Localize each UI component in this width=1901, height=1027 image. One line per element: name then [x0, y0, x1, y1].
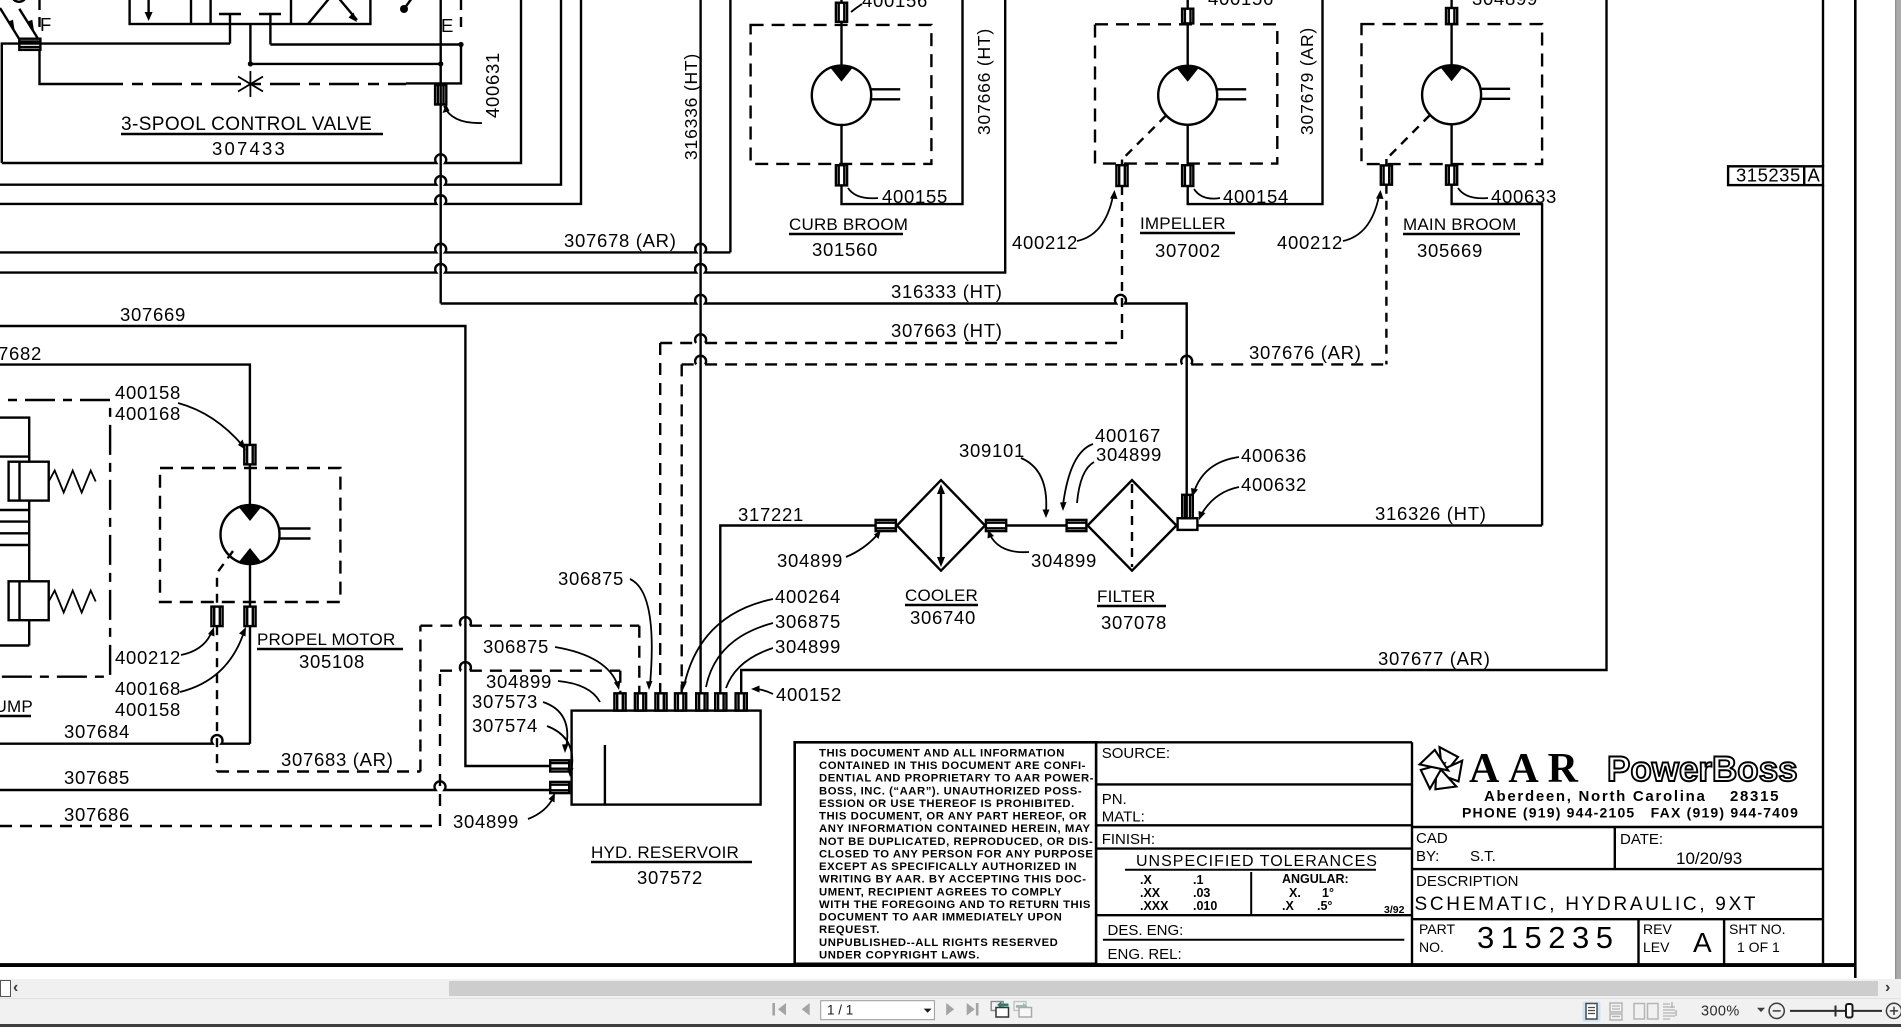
wire main broom case drain down (307676): [1385, 185, 1387, 365]
main broom dashed enclosure: [1362, 24, 1543, 164]
svg-text:DENTIAL AND PROPRIETARY TO AAR: DENTIAL AND PROPRIETARY TO AAR POWER-: [819, 773, 1094, 785]
svg-text:400212: 400212: [1012, 232, 1078, 253]
svg-text:307433: 307433: [212, 138, 287, 159]
next page button: [946, 1003, 954, 1016]
fitting cooler outlet: [986, 520, 1006, 531]
leader 400632: [1201, 487, 1239, 515]
wire 307685: [0, 781, 550, 790]
svg-text:FILTER: FILTER: [1097, 587, 1156, 606]
svg-text:307666 (HT): 307666 (HT): [974, 28, 994, 135]
svg-text:309101: 309101: [959, 440, 1025, 461]
valve T port 2: [259, 13, 281, 15]
pump ports ladder: [28, 457, 30, 462]
fitting tank F7: [736, 693, 747, 710]
zoom in: [1886, 1003, 1901, 1018]
fitting tank left 2: [550, 782, 569, 793]
svg-text:WRITING BY AAR. BY ACCEPTING T: WRITING BY AAR. BY ACCEPTING THIS DOC-: [819, 874, 1087, 886]
curb broom dashed enclosure: [751, 25, 932, 164]
svg-text:307573: 307573: [472, 691, 538, 712]
svg-text:DES. ENG:: DES. ENG:: [1108, 922, 1184, 939]
viewer toolbar: [0, 998, 1901, 1025]
wire propel feed: [249, 464, 251, 505]
svg-text:1 OF 1: 1 OF 1: [1737, 939, 1780, 955]
svg-text:3/92: 3/92: [1384, 904, 1405, 916]
svg-text:307572: 307572: [637, 867, 703, 888]
fitting 400155: [836, 165, 847, 185]
svg-text:400156: 400156: [1208, 0, 1274, 9]
svg-text:MAIN BROOM: MAIN BROOM: [1403, 215, 1516, 234]
svg-text:F: F: [40, 14, 52, 35]
leader 400212 main broom: [1343, 196, 1379, 241]
svg-text:317221: 317221: [738, 504, 804, 525]
svg-text:PN.: PN.: [1102, 791, 1127, 808]
wire 317221: [720, 526, 875, 694]
hydraulic reservoir 307572: [572, 711, 761, 805]
wire cooler to filter: [1006, 524, 1066, 526]
svg-text:.XXX: .XXX: [1140, 899, 1169, 913]
layout: continuous: [1610, 1003, 1622, 1020]
viewer horizontal scrollbar: [0, 979, 1901, 998]
leaders 400167/304899: [1063, 444, 1093, 505]
svg-text:400632: 400632: [1241, 474, 1307, 495]
wire: center port down and right to trunk: [250, 24, 440, 64]
fitting main broom top: [1446, 8, 1457, 24]
layout: single page (active): [1583, 1002, 1601, 1022]
motor main broom: [1422, 65, 1510, 124]
right margin wire: [1822, 0, 1824, 963]
motor curb broom: [812, 66, 900, 125]
svg-text:ENG. REL:: ENG. REL:: [1108, 946, 1182, 963]
svg-text:315235: 315235: [1736, 165, 1801, 186]
svg-text:400152: 400152: [776, 684, 842, 705]
svg-text:304899: 304899: [777, 550, 843, 571]
svg-text:DOCUMENT TO AAR IMMEDIATELY UP: DOCUMENT TO AAR IMMEDIATELY UPON: [819, 912, 1062, 924]
svg-text:DATE:: DATE:: [1620, 831, 1663, 848]
svg-text:PROPEL MOTOR: PROPEL MOTOR: [257, 630, 395, 649]
svg-text:X.: X.: [1289, 886, 1301, 900]
wire 307686 dashed: [0, 671, 620, 826]
dashed stub above F: [38, 0, 40, 34]
svg-text:.03: .03: [1193, 886, 1210, 900]
svg-text:UNDER COPYRIGHT LAWS.: UNDER COPYRIGHT LAWS.: [819, 949, 980, 961]
impeller case drain (dashed diagonal): [1122, 116, 1166, 160]
spring 2: [49, 591, 96, 613]
svg-text:THIS DOCUMENT AND ALL INFORMAT: THIS DOCUMENT AND ALL INFORMATION: [819, 748, 1065, 760]
svg-text:ANGULAR:: ANGULAR:: [1282, 872, 1349, 886]
svg-text:CLOSED TO ANY PERSON FOR ANY P: CLOSED TO ANY PERSON FOR ANY PURPOSE: [819, 849, 1093, 861]
svg-text:.X: .X: [1140, 873, 1152, 887]
pump dash-dot enclosure: [0, 400, 110, 677]
svg-text:E: E: [441, 15, 454, 36]
svg-text:400212: 400212: [115, 647, 181, 668]
svg-text:307676 (AR): 307676 (AR): [1249, 342, 1362, 363]
last page button: [967, 1003, 979, 1016]
leader 400212 propel: [181, 631, 212, 655]
svg-text:PHONE (919) 944-2105 FAX (91: PHONE (919) 944-2105 FAX (919) 944-7409: [1462, 805, 1799, 821]
svg-text:306875: 306875: [483, 636, 549, 657]
wire 307678 (AR): [729, 0, 731, 252]
layout: two pages: [1634, 1004, 1658, 1020]
svg-text:305108: 305108: [299, 651, 365, 672]
svg-text:315235: 315235: [1477, 920, 1619, 955]
svg-text:.X: .X: [1282, 899, 1294, 913]
propel case drain dashed: [217, 551, 233, 607]
fitting 400212 (main broom): [1381, 165, 1392, 184]
svg-text:.5°: .5°: [1317, 899, 1332, 913]
svg-text:400633: 400633: [1491, 186, 1557, 207]
svg-text:UNPUBLISHED--ALL RIGHTS RESERV: UNPUBLISHED--ALL RIGHTS RESERVED: [819, 937, 1058, 949]
X symbol: [238, 71, 263, 97]
svg-text:A: A: [1808, 165, 1821, 186]
svg-text:316336 (HT): 316336 (HT): [681, 53, 701, 160]
title block: middle column grid: [1096, 742, 1412, 915]
svg-text:400155: 400155: [882, 186, 948, 207]
wire main broom return to 316326: [1452, 185, 1543, 526]
bottom dark strip: [0, 1024, 1901, 1027]
svg-text:400168: 400168: [115, 678, 181, 699]
svg-text:307574: 307574: [472, 715, 538, 736]
zoom out: [1769, 1003, 1784, 1018]
main broom case drain diagonal: [1386, 115, 1430, 159]
wire propel bottom to 307684: [249, 626, 251, 744]
svg-text:S.T.: S.T.: [1470, 848, 1496, 865]
leader 400168/400158 bottom: [180, 632, 244, 692]
svg-text:316333 (HT): 316333 (HT): [891, 281, 1003, 302]
svg-text:304899: 304899: [1031, 550, 1097, 571]
svg-text:307682: 307682: [0, 343, 42, 364]
motor propel (bidirectional): [221, 505, 311, 564]
pump block (cut): [0, 418, 29, 457]
svg-text:307684: 307684: [64, 721, 130, 742]
svg-text:MATL:: MATL:: [1102, 809, 1145, 826]
dashed stub below E: [460, 0, 462, 33]
valve relief triangle (right cell): [308, 0, 332, 24]
wire 307663 (HT) dashed: [660, 343, 1122, 693]
svg-text:400167: 400167: [1095, 425, 1161, 446]
svg-text:304899: 304899: [1472, 0, 1538, 9]
prev page button: [802, 1003, 810, 1016]
propel motor dashed enclosure: [160, 468, 340, 602]
svg-text:.XX: .XX: [1140, 886, 1161, 900]
leader 400154: [1194, 189, 1220, 199]
wire impeller bottom: [1186, 125, 1188, 165]
wire E-line to impeller drain riser: [0, 0, 1005, 273]
wire impeller case drain down (307663): [1121, 186, 1123, 343]
svg-text:304899: 304899: [1096, 444, 1162, 465]
svg-text:307669: 307669: [120, 304, 186, 325]
wire main broom bottom: [1450, 124, 1452, 165]
svg-text:NOT BE DUPLICATED, REPRODUCED,: NOT BE DUPLICATED, REPRODUCED, OR DIS-: [819, 836, 1093, 848]
leader 400636: [1194, 457, 1239, 492]
svg-text:AAR: AAR: [1469, 746, 1587, 792]
svg-text:WITH THE FOREGOING AND TO RETU: WITH THE FOREGOING AND TO RETURN THIS: [819, 899, 1091, 911]
fitting 400631: [435, 85, 446, 105]
wire 307677 (AR): [741, 0, 1606, 693]
svg-text:316326 (HT): 316326 (HT): [1375, 503, 1487, 524]
svg-text:304899: 304899: [486, 671, 552, 692]
fitting tank left 1: [550, 760, 569, 771]
fitting F port: [19, 39, 40, 50]
3-spool control valve body (cut at top): [130, 0, 371, 24]
svg-text:307078: 307078: [1101, 612, 1167, 633]
svg-text:NO.: NO.: [1419, 939, 1444, 955]
relief valve 2: [9, 581, 49, 620]
motor impeller: [1158, 66, 1246, 125]
wire 307684: [0, 735, 250, 744]
wire 307683 (AR) dashed: [217, 626, 639, 772]
page number box: [821, 1001, 935, 1020]
impeller dashed enclosure: [1095, 24, 1277, 163]
zoom slider: [1790, 1010, 1882, 1012]
fitting 400633: [1446, 165, 1457, 184]
dash-dot centre line with X: [40, 50, 94, 84]
wire curb broom feed: [840, 0, 842, 3]
filter: [1088, 480, 1177, 571]
wire 307669 box: [0, 326, 550, 766]
part number box 315235 A: [1728, 166, 1823, 185]
svg-text:300%: 300%: [1701, 1004, 1740, 1020]
wire: T2 to step corner: [270, 45, 461, 84]
lever handle (top-left, cut off): [12, 0, 27, 2]
svg-text:REQUEST.: REQUEST.: [819, 924, 880, 936]
svg-text:400636: 400636: [1241, 445, 1307, 466]
svg-text:400156: 400156: [862, 0, 928, 11]
wire 316333 (HT): [441, 295, 1187, 518]
svg-text:307685: 307685: [64, 767, 130, 788]
filter outlet tee fitting: [1178, 495, 1198, 530]
wire impeller return 307679: [1188, 0, 1323, 204]
wire 307682 to propel motor: [0, 365, 250, 445]
drawing bottom border: [0, 963, 1857, 967]
svg-text:BY:: BY:: [1416, 848, 1439, 865]
leader 400212 impeller: [1077, 196, 1113, 241]
lever ball (top middle): [400, 5, 408, 13]
svg-text:FINISH:: FINISH:: [1102, 831, 1155, 848]
svg-text:10/20/93: 10/20/93: [1676, 849, 1742, 868]
fitting tank F2: [635, 693, 646, 710]
fitting 400168/400158 bottom: [244, 607, 255, 627]
fitting tank F1: [614, 693, 625, 710]
svg-text:PART: PART: [1419, 921, 1455, 937]
fitting 400212 (impeller): [1116, 165, 1127, 186]
fitting curb broom top: [836, 3, 847, 22]
wire 307676 (AR) dashed: [682, 364, 1387, 693]
next view button (disabled): [1014, 1002, 1032, 1018]
svg-text:307678 (AR): 307678 (AR): [564, 230, 677, 251]
wires wrapping right of valve (A,B,C): [2, 0, 521, 163]
wire curb broom bottom: [840, 125, 842, 165]
svg-text:CURB BROOM: CURB BROOM: [789, 215, 908, 234]
svg-text:400158: 400158: [115, 382, 181, 403]
wire main broom feed: [1450, 0, 1452, 8]
previous view button: [991, 1001, 1008, 1017]
AAR PowerBoss logo pinwheel: [1420, 747, 1463, 789]
svg-text:301560: 301560: [812, 239, 878, 260]
leader 304899 cooler inlet: [846, 534, 878, 557]
first page button: [772, 1003, 786, 1016]
fitting tank F6: [715, 693, 726, 710]
fitting 400158/400168 top: [244, 445, 255, 465]
svg-text:SCHEMATIC, HYDRAULIC, 9XT: SCHEMATIC, HYDRAULIC, 9XT: [1415, 894, 1759, 915]
wire 316326 (HT): [1197, 524, 1542, 526]
svg-text:UNSPECIFIED TOLERANCES: UNSPECIFIED TOLERANCES: [1136, 853, 1378, 870]
leader 400155: [848, 188, 878, 198]
svg-text:305669: 305669: [1417, 240, 1483, 261]
svg-text:400212: 400212: [1277, 232, 1343, 253]
svg-text:ANY INFORMATION CONTAINED HERE: ANY INFORMATION CONTAINED HEREIN, MAY: [819, 823, 1091, 835]
trunk wire from valve (jumps 5 lines, corner right = 316333): [440, 0, 442, 304]
svg-text:400168: 400168: [115, 403, 181, 424]
svg-text:CONTAINED IN THIS DOCUMENT ARE: CONTAINED IN THIS DOCUMENT ARE CONFI-: [819, 760, 1086, 772]
svg-text:CAD: CAD: [1416, 830, 1448, 847]
relief valve 1: [9, 462, 49, 501]
svg-text:306875: 306875: [775, 611, 841, 632]
svg-text:306740: 306740: [910, 607, 976, 628]
viewer vertical scrollbar strip: [1895, 0, 1901, 979]
wire propel case drain down: [216, 626, 218, 771]
svg-text:307663 (HT): 307663 (HT): [891, 320, 1003, 341]
svg-text:307002: 307002: [1155, 240, 1221, 261]
svg-text:ESSION OR USE THEREOF IS PROHI: ESSION OR USE THEREOF IS PROHIBITED.: [819, 798, 1075, 810]
svg-text:HYD. RESERVOIR: HYD. RESERVOIR: [591, 843, 739, 862]
drawing right border: [1854, 0, 1857, 978]
wire impeller feed: [1186, 0, 1188, 9]
fitting impeller top: [1182, 9, 1193, 24]
leader 304899 cooler outlet: [990, 535, 1029, 552]
fitting tank F5: [696, 693, 707, 710]
svg-text:.010: .010: [1193, 899, 1217, 913]
svg-text:SHT NO.: SHT NO.: [1729, 921, 1786, 937]
wire curb broom return 307666: [842, 0, 963, 204]
svg-text:1 / 1: 1 / 1: [827, 1003, 853, 1018]
cooler: [897, 480, 985, 571]
svg-text:304899: 304899: [775, 636, 841, 657]
svg-text:1°: 1°: [1322, 886, 1334, 900]
title block: legal notice box: [795, 742, 1096, 964]
fitting filter inlet: [1067, 520, 1087, 531]
svg-text:PowerBoss: PowerBoss: [1607, 750, 1798, 789]
spring 1: [49, 471, 96, 493]
fitting 400212 (propel): [211, 607, 222, 627]
svg-text:UMENT, RECIPIENT AGREES TO COM: UMENT, RECIPIENT AGREES TO COMPLY: [819, 886, 1062, 898]
fitting tank F4: [675, 693, 686, 710]
svg-text:307683 (AR): 307683 (AR): [281, 749, 394, 770]
valve T port 1: [219, 13, 241, 15]
svg-text:A: A: [1693, 927, 1712, 958]
leader 309101: [1021, 458, 1046, 512]
wire: valve outer box top edge (left): [2, 44, 230, 163]
pump lower port: [28, 620, 30, 645]
svg-text:400154: 400154: [1223, 186, 1289, 207]
wire propel bottom: [249, 564, 251, 607]
leader 400631: [444, 106, 482, 123]
title block: right column grid: [1412, 827, 1823, 919]
leader 400158/400168 top: [178, 403, 243, 446]
svg-text:307686: 307686: [64, 804, 130, 825]
svg-text:307679 (AR): 307679 (AR): [1297, 27, 1317, 135]
svg-text:IMPELLER: IMPELLER: [1140, 214, 1226, 233]
fitting 400154: [1182, 165, 1193, 186]
svg-text:BOSS, INC. (“AAR”). UNAUTHORI: BOSS, INC. (“AAR”). UNAUTHORIZED POSS-: [819, 785, 1082, 797]
svg-text:400158: 400158: [115, 699, 181, 720]
svg-text:DESCRIPTION: DESCRIPTION: [1416, 873, 1519, 890]
svg-text:LEV: LEV: [1643, 939, 1670, 955]
svg-text:306875: 306875: [558, 568, 624, 589]
svg-text:THIS DOCUMENT, OR ANY PART HER: THIS DOCUMENT, OR ANY PART HEREOF, OR: [819, 811, 1087, 823]
svg-text:PUMP: PUMP: [0, 697, 33, 716]
leader 400633: [1458, 188, 1488, 198]
fitting tank F3: [655, 693, 666, 710]
trunk wire 316336 down to reservoir: [699, 0, 701, 693]
svg-text:3-SPOOL CONTROL VALVE: 3-SPOOL CONTROL VALVE: [121, 114, 372, 135]
svg-text:COOLER: COOLER: [905, 586, 978, 605]
svg-text:REV: REV: [1643, 921, 1672, 937]
svg-text:Aberdeen, North Carolina: Aberdeen, North Carolina 28315: [1484, 788, 1780, 805]
fitting cooler inlet: [876, 520, 896, 531]
svg-text:400631: 400631: [482, 52, 503, 118]
valve arrow (left cell): [147, 0, 149, 13]
svg-text:SOURCE:: SOURCE:: [1102, 745, 1170, 762]
svg-text:400264: 400264: [775, 586, 841, 607]
layout: two pages continuous: [1663, 1002, 1676, 1019]
svg-text:.1: .1: [1193, 873, 1203, 887]
legal notice text: [819, 748, 1094, 962]
svg-text:307677 (AR): 307677 (AR): [1378, 648, 1491, 669]
svg-text:EXCEPT AS SPECIFICALLY AUTHORI: EXCEPT AS SPECIFICALLY AUTHORIZED IN: [819, 861, 1077, 873]
svg-text:304899: 304899: [453, 811, 519, 832]
